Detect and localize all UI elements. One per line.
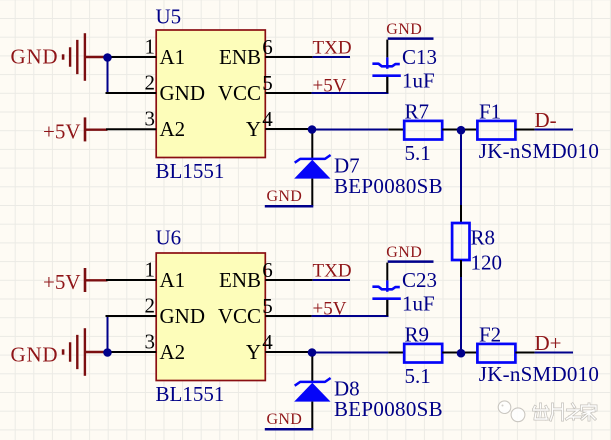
- svg-text:6: 6: [262, 35, 273, 59]
- svg-text:GND: GND: [267, 411, 303, 428]
- svg-text:A2: A2: [160, 340, 186, 364]
- svg-text:R7: R7: [405, 99, 430, 123]
- svg-text:U6: U6: [156, 226, 182, 250]
- svg-text:GND: GND: [386, 21, 422, 38]
- svg-text:+5V: +5V: [313, 75, 347, 96]
- svg-text:A1: A1: [160, 268, 186, 292]
- svg-text:4: 4: [262, 107, 273, 131]
- svg-text:GND: GND: [160, 304, 206, 328]
- svg-text:VCC: VCC: [218, 81, 261, 105]
- svg-text:GND: GND: [386, 244, 422, 261]
- svg-text:TXD: TXD: [313, 38, 352, 59]
- svg-text:BL1551: BL1551: [156, 159, 225, 183]
- svg-text:2: 2: [145, 293, 156, 317]
- svg-text:5: 5: [262, 71, 273, 95]
- svg-text:GND: GND: [11, 342, 59, 366]
- svg-text:3: 3: [145, 329, 156, 353]
- svg-text:Y: Y: [246, 340, 261, 364]
- svg-text:BEP0080SB: BEP0080SB: [334, 174, 443, 198]
- svg-text:ENB: ENB: [219, 268, 261, 292]
- svg-text:BL1551: BL1551: [156, 382, 225, 406]
- svg-text:VCC: VCC: [218, 304, 261, 328]
- svg-text:R9: R9: [405, 322, 430, 346]
- svg-text:GND: GND: [11, 45, 59, 69]
- svg-text:ENB: ENB: [219, 45, 261, 69]
- svg-text:5.1: 5.1: [405, 141, 431, 165]
- svg-text:+5V: +5V: [43, 270, 81, 294]
- svg-text:Y: Y: [246, 117, 261, 141]
- svg-text:+5V: +5V: [313, 298, 347, 319]
- svg-text:F2: F2: [479, 322, 501, 346]
- svg-text:5: 5: [262, 294, 273, 318]
- svg-text:GND: GND: [160, 81, 206, 105]
- svg-text:2: 2: [145, 70, 156, 94]
- svg-text:BEP0080SB: BEP0080SB: [334, 397, 443, 421]
- svg-text:R8: R8: [471, 226, 496, 250]
- svg-text:5.1: 5.1: [405, 364, 431, 388]
- svg-text:TXD: TXD: [313, 261, 352, 282]
- svg-text:C13: C13: [402, 45, 437, 69]
- svg-text:1: 1: [145, 257, 156, 281]
- svg-text:1: 1: [145, 34, 156, 58]
- svg-text:D-: D-: [535, 108, 557, 132]
- svg-text:D+: D+: [535, 331, 562, 355]
- svg-text:1uF: 1uF: [402, 292, 435, 316]
- svg-text:JK-nSMD010: JK-nSMD010: [479, 362, 599, 386]
- svg-text:C23: C23: [402, 268, 437, 292]
- svg-text:F1: F1: [479, 99, 501, 123]
- svg-text:A1: A1: [160, 45, 186, 69]
- svg-text:120: 120: [471, 250, 503, 274]
- svg-text:+5V: +5V: [43, 120, 81, 144]
- svg-text:1uF: 1uF: [402, 69, 435, 93]
- svg-text:6: 6: [262, 258, 273, 282]
- svg-text:JK-nSMD010: JK-nSMD010: [479, 139, 599, 163]
- svg-text:3: 3: [145, 106, 156, 130]
- svg-text:GND: GND: [267, 188, 303, 205]
- svg-text:A2: A2: [160, 117, 186, 141]
- svg-text:U5: U5: [156, 5, 182, 29]
- svg-text:4: 4: [262, 330, 273, 354]
